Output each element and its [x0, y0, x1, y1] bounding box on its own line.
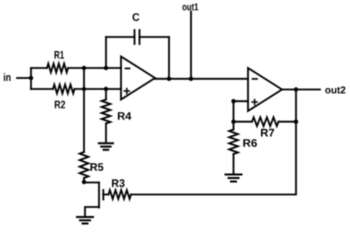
junction R2 row crossing: [82, 87, 86, 91]
wire input lead: [17, 77, 31, 79]
junction out2 node: [294, 87, 298, 91]
op-amp U2: [248, 68, 282, 111]
junction inverting input node: [104, 66, 108, 70]
junction out1 node: [189, 77, 193, 81]
wire out1 stub: [190, 12, 192, 79]
wire R7 left lead: [234, 121, 253, 123]
op-amp U1: [121, 57, 155, 100]
resistor R1: [47, 51, 68, 72]
capacitor C top left wire: [106, 36, 135, 38]
node out2 (label): [325, 86, 345, 93]
node out1 (label): [182, 3, 198, 10]
ground (below R4): [99, 143, 113, 150]
wire gate lead: [103, 194, 108, 196]
wire R7 right lead: [279, 121, 297, 123]
wire column R1 node down to R5: [83, 68, 85, 152]
junction R7 right node: [294, 120, 298, 124]
resistor R6: [229, 122, 257, 154]
ground (below R6): [226, 175, 242, 182]
transistor Q1 channel bar: [98, 183, 100, 208]
transistor Q1 gate bar: [102, 190, 104, 200]
resistor R5: [80, 152, 104, 178]
wire R2 to op-amp non-inverting input: [75, 88, 122, 90]
wire R5 bottom lead: [83, 178, 85, 183]
junction R1 output node: [82, 66, 86, 70]
resistor R4: [102, 89, 132, 124]
capacitor C right leg: [168, 37, 170, 79]
wire U2 non-inverting input: [234, 101, 249, 122]
wire R1 row left: [31, 67, 47, 69]
capacitor C left leg: [105, 37, 107, 68]
resistor R3: [109, 179, 132, 199]
wire R2 row left: [31, 88, 53, 90]
wire R1 to op-amp inverting input: [68, 67, 121, 69]
wire bottom feedback run: [131, 90, 296, 195]
junction cap to output: [167, 77, 171, 81]
junction R6 R7 node: [231, 120, 235, 124]
wire U2 output: [282, 89, 320, 91]
junction R4 top node: [104, 87, 108, 91]
node in (input label): [4, 73, 11, 81]
wire op-amp U1 output to U2 inverting input: [155, 78, 248, 80]
wire input branch vertical: [30, 68, 32, 89]
junction input node: [29, 76, 33, 80]
wire R6 bottom lead: [233, 154, 235, 174]
transistor Q1 drain wire: [84, 182, 99, 184]
ground (transistor source): [77, 217, 93, 224]
resistor R7: [252, 117, 279, 136]
junction R5 drain node: [82, 180, 86, 184]
junction U2 plus node: [231, 99, 235, 103]
resistor R2: [53, 85, 75, 109]
wire R4 bottom lead: [105, 124, 107, 144]
transistor Q1 source wire: [85, 207, 99, 217]
capacitor C: [133, 13, 140, 44]
capacitor C top right wire: [140, 36, 170, 38]
